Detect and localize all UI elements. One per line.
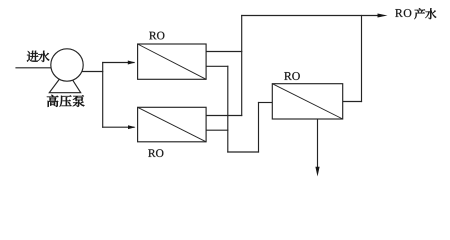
wire: second-stage permeate line [343, 101, 362, 103]
arrowhead: concentrate waste outlet [315, 167, 319, 177]
wire: feed splitter vertical [102, 63, 104, 128]
wire: bottom RO concentrate line [206, 129, 228, 131]
wire: branch to first-stage RO top [103, 62, 134, 64]
wire: second-stage feed line [259, 102, 273, 104]
label: 进水 (feed water) [27, 51, 39, 62]
wire: product riser from first stage [241, 16, 243, 116]
wire: top RO concentrate line [206, 65, 228, 67]
wire: concentrate waste drop line [317, 119, 319, 168]
pump triangle base [49, 70, 80, 93]
arrowhead: RO product outlet [378, 14, 388, 18]
wire: top RO permeate line [206, 51, 242, 53]
first-stage RO module (bottom) [138, 107, 207, 142]
wire: pump outlet line [67, 71, 103, 73]
wire: branch to first-stage RO bottom [103, 126, 134, 128]
wire: second-stage feed riser [258, 103, 260, 153]
arrowhead: feed into bottom RO [128, 125, 136, 129]
wire: concentrate collector vertical [227, 66, 229, 152]
wire: concentrate bottom connector [228, 151, 259, 153]
label: RO (top module) [149, 32, 164, 40]
wire: product rail to RO product outlet [242, 15, 378, 17]
label: 高压泵 (high-pressure pump) [47, 95, 59, 107]
label: RO (bottom module) [148, 149, 163, 157]
label: RO (product line) [395, 9, 411, 17]
label: RO (second-stage module) [284, 72, 300, 80]
pump circle (high-pressure pump) [51, 49, 83, 81]
wire: feed inlet line [16, 67, 67, 69]
label: 产水 (product water) [414, 8, 425, 19]
first-stage RO module (top) [138, 44, 207, 79]
wire: product riser from second stage [361, 16, 363, 102]
second-stage RO module [272, 84, 342, 119]
arrowhead: feed into top RO [128, 61, 135, 65]
wire: bottom RO permeate line [206, 115, 242, 117]
